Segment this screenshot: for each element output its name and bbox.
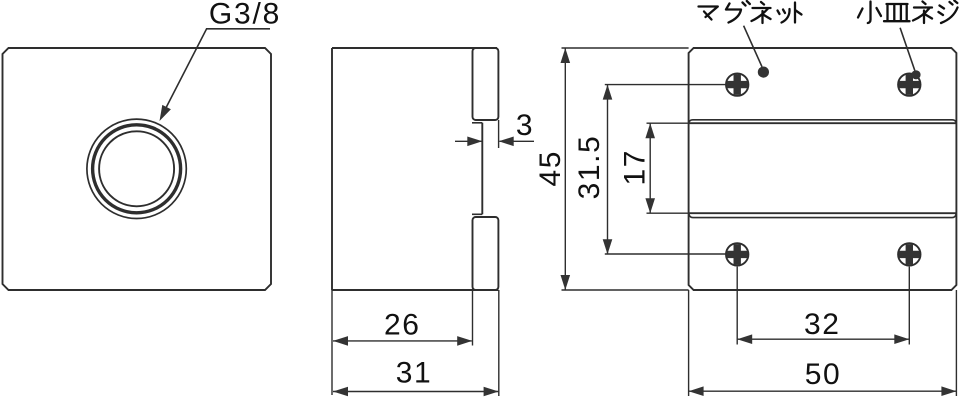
dim 50 right arrow bbox=[941, 386, 956, 396]
screw bottom-left circle bbox=[726, 243, 748, 265]
dim 32 line bbox=[737, 338, 909, 340]
svg-text:32: 32 bbox=[804, 308, 841, 341]
extension line side-view right edge for dim 3 bbox=[498, 120, 500, 148]
dim 26 left arrow bbox=[333, 336, 348, 346]
extension line side-view right for dim 31 bbox=[498, 290, 500, 396]
dim 31 left arrow bbox=[333, 387, 348, 397]
svg-text:26: 26 bbox=[384, 308, 421, 341]
svg-text:17: 17 bbox=[618, 149, 651, 186]
dim 32 extension left bbox=[736, 267, 738, 345]
dim 50 extension right bbox=[955, 290, 957, 396]
screw label leader line bbox=[900, 28, 915, 71]
right view rail bottom tab upper edge (rounded ends) bbox=[689, 213, 956, 217]
svg-text:31: 31 bbox=[396, 357, 433, 390]
port outer circle bbox=[87, 119, 186, 218]
dim 45 line bbox=[564, 48, 566, 290]
dim 45 bottom arrow bbox=[561, 275, 571, 290]
dim 17 extension bottom bbox=[647, 212, 689, 214]
dim 31.5 extension top bbox=[605, 84, 726, 86]
port bore circle bbox=[99, 131, 174, 206]
dim 50 line bbox=[689, 390, 957, 392]
dim 32 extension right bbox=[908, 267, 910, 345]
dim 31 right arrow bbox=[484, 387, 499, 397]
dim 3 left arrow bbox=[467, 137, 482, 147]
extension line side-view x=472.5 for dim 26 bbox=[472, 290, 474, 346]
side view groove step upper bbox=[472, 122, 482, 124]
side view lower rail tab (rounded rect) bbox=[473, 217, 499, 290]
dim 17 top arrow bbox=[645, 123, 655, 138]
dim 26 right arrow bbox=[457, 336, 472, 346]
dim 17 line bbox=[649, 123, 651, 213]
magnet dot bbox=[758, 67, 769, 78]
screw top-right circle bbox=[898, 73, 920, 95]
screw bottom-right cross bbox=[899, 244, 920, 265]
dim 31.5 bottom arrow bbox=[603, 239, 613, 254]
svg-text:31.5: 31.5 bbox=[573, 135, 606, 200]
side view left edge bbox=[331, 48, 333, 290]
dim 26 line bbox=[333, 340, 472, 342]
dim 3 right arrow bbox=[499, 137, 514, 147]
dim 31.5 top arrow bbox=[603, 85, 613, 100]
screw bottom-right circle bbox=[898, 243, 920, 265]
svg-text:3: 3 bbox=[516, 109, 534, 142]
dim 45 top arrow bbox=[561, 48, 571, 63]
side view upper rail tab (rounded rect) bbox=[473, 48, 499, 120]
label magnet katakana GU bbox=[726, 1, 750, 23]
dim 50 extension left bbox=[688, 290, 690, 396]
dim 50 left arrow bbox=[689, 386, 704, 396]
screw top-right cross bbox=[899, 74, 920, 95]
label magnet katakana NE bbox=[752, 2, 771, 23]
dim 3 left line bbox=[455, 140, 482, 142]
label screw katakana JI bbox=[939, 1, 958, 24]
right view rail top tab lower edge (rounded ends) bbox=[689, 120, 956, 123]
screw top-left cross bbox=[727, 74, 748, 95]
side view groove step lower bbox=[472, 213, 482, 215]
svg-text:50: 50 bbox=[805, 358, 842, 391]
dim 3 right line bbox=[500, 140, 535, 142]
dim 17 bottom arrow bbox=[645, 198, 655, 213]
screw top-left circle bbox=[726, 73, 748, 95]
label magnet katakana small TSU bbox=[778, 9, 790, 23]
dim 17 extension top bbox=[647, 122, 689, 124]
svg-text:G3/8: G3/8 bbox=[209, 0, 281, 31]
dim 31.5 extension bottom bbox=[605, 253, 726, 255]
dim 45 extension top bbox=[562, 47, 689, 49]
extension line side-view left for dims 26/31 bbox=[331, 290, 333, 395]
label magnet katakana MA bbox=[699, 7, 718, 20]
right view groove upper line bbox=[689, 122, 957, 124]
port thread circle (thick) bbox=[93, 125, 181, 213]
side view groove bottom line bbox=[481, 123, 483, 215]
label screw kanji SHOU (small) bbox=[858, 2, 881, 24]
side view bottom edge bbox=[332, 289, 498, 291]
right view groove lower line bbox=[689, 212, 957, 214]
screw label leader dot bbox=[911, 70, 920, 79]
dim 32 left arrow bbox=[737, 334, 752, 344]
label magnet katakana TO bbox=[795, 3, 802, 23]
label screw kanji SARA (dish) bbox=[884, 4, 910, 21]
left view outline (front face, chamfered square) bbox=[3, 48, 272, 290]
dim 45 extension bottom bbox=[562, 289, 689, 291]
label screw katakana NE bbox=[913, 2, 932, 24]
dim 32 right arrow bbox=[894, 334, 909, 344]
magnet leader line bbox=[744, 26, 762, 67]
dim 31.5 line bbox=[607, 85, 609, 255]
dim 31 line bbox=[333, 391, 498, 393]
screw bottom-left cross bbox=[727, 244, 748, 265]
side view top edge bbox=[332, 47, 497, 49]
right view outline (chamfered rect) bbox=[689, 48, 957, 290]
leader arrowhead bbox=[160, 105, 171, 121]
leader line for G3/8 bbox=[161, 29, 270, 118]
svg-text:45: 45 bbox=[534, 150, 567, 187]
